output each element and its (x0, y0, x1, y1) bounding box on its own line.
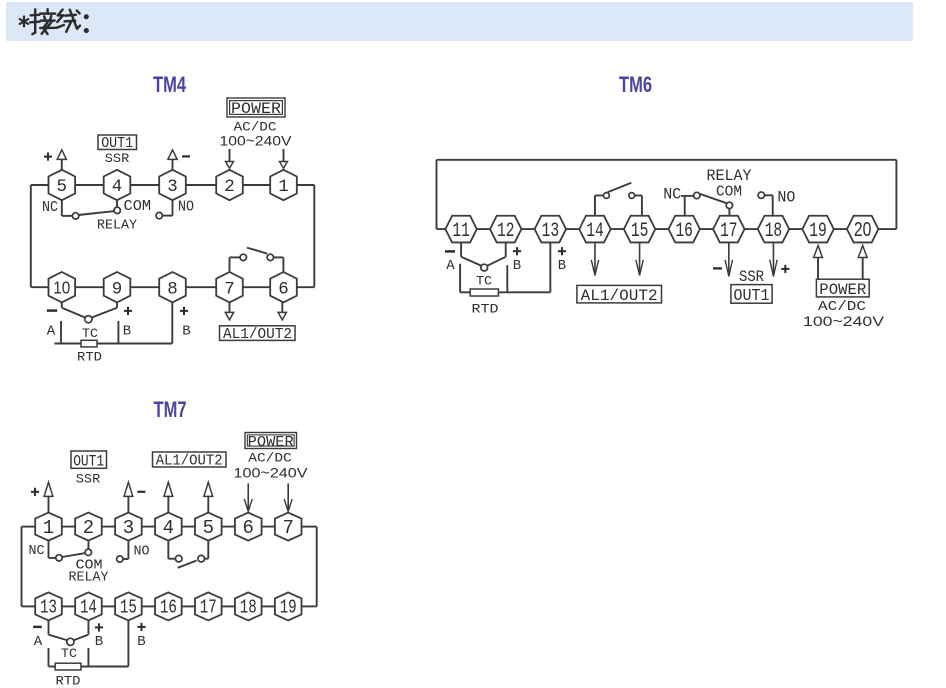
svg-text:100~240V: 100~240V (234, 464, 309, 480)
svg-text:B: B (182, 324, 190, 340)
svg-text:OUT1: OUT1 (101, 135, 133, 152)
svg-text:RTD: RTD (77, 349, 102, 364)
svg-text:TM6: TM6 (619, 72, 652, 97)
svg-text:AL1/OUT2: AL1/OUT2 (156, 453, 223, 469)
svg-text:AC/DC: AC/DC (234, 120, 277, 135)
svg-text:B: B (137, 634, 145, 650)
svg-text:1: 1 (278, 177, 289, 197)
svg-text:COM: COM (124, 199, 152, 215)
svg-text:14: 14 (586, 220, 604, 243)
svg-text:19: 19 (809, 220, 827, 243)
svg-text:20: 20 (854, 219, 872, 241)
svg-text:B: B (513, 258, 521, 274)
svg-text:NO: NO (178, 198, 194, 215)
svg-text:OUT1: OUT1 (73, 452, 104, 470)
svg-text:18: 18 (765, 220, 783, 243)
svg-text:A: A (34, 634, 43, 650)
svg-text:2: 2 (224, 177, 235, 197)
svg-text:16: 16 (675, 220, 693, 243)
svg-text:RTD: RTD (56, 674, 81, 688)
svg-text:NC: NC (29, 543, 45, 559)
svg-text:NO: NO (777, 188, 795, 206)
svg-text:12: 12 (497, 220, 515, 243)
svg-text:5: 5 (203, 517, 214, 539)
svg-text:SSR: SSR (76, 472, 101, 487)
svg-text:B: B (123, 324, 131, 340)
svg-text:4: 4 (112, 177, 123, 197)
svg-text:100~240V: 100~240V (803, 313, 885, 329)
svg-text:RELAY: RELAY (97, 217, 138, 233)
svg-text:TC: TC (476, 273, 492, 288)
svg-text:17: 17 (720, 220, 738, 243)
svg-text:TC: TC (61, 646, 77, 661)
svg-text:A: A (47, 324, 56, 340)
svg-text:15: 15 (631, 220, 649, 243)
svg-text:7: 7 (282, 517, 293, 539)
svg-text:4: 4 (163, 517, 174, 539)
svg-text:17: 17 (200, 597, 217, 619)
svg-text:SSR: SSR (105, 151, 130, 166)
svg-text:13: 13 (542, 220, 560, 243)
svg-text:A: A (446, 258, 455, 274)
svg-text:AL1/OUT2: AL1/OUT2 (581, 287, 658, 305)
svg-text:6: 6 (278, 279, 289, 299)
svg-text:13: 13 (40, 597, 57, 619)
svg-text:B: B (558, 258, 566, 274)
svg-text:SSR: SSR (739, 268, 764, 286)
svg-text:18: 18 (240, 597, 257, 619)
svg-text:COM: COM (716, 183, 742, 200)
svg-text:8: 8 (167, 279, 178, 299)
svg-text:100~240V: 100~240V (220, 133, 292, 148)
svg-text:7: 7 (224, 279, 235, 299)
svg-text:POWER: POWER (231, 100, 281, 118)
svg-text:AC/DC: AC/DC (248, 450, 292, 465)
svg-text:1: 1 (43, 517, 54, 539)
svg-text:POWER: POWER (248, 434, 294, 451)
svg-text:9: 9 (112, 279, 123, 299)
svg-text:3: 3 (123, 517, 134, 539)
svg-text:11: 11 (452, 220, 470, 243)
svg-text:RELAY: RELAY (69, 569, 110, 585)
svg-text:TM7: TM7 (154, 397, 187, 422)
svg-text:15: 15 (120, 597, 137, 619)
svg-text:3: 3 (167, 177, 178, 197)
svg-text:NC: NC (663, 185, 681, 203)
svg-text:2: 2 (83, 517, 94, 539)
svg-text:10: 10 (53, 277, 70, 297)
svg-text:14: 14 (80, 597, 97, 619)
svg-text:5: 5 (57, 177, 68, 197)
svg-text:NO: NO (134, 543, 150, 559)
svg-text:NC: NC (42, 199, 58, 216)
svg-text:16: 16 (160, 597, 177, 619)
svg-text:AL1/OUT2: AL1/OUT2 (223, 326, 292, 343)
svg-text:RTD: RTD (472, 302, 499, 317)
svg-text:OUT1: OUT1 (734, 286, 770, 305)
svg-text:TC: TC (82, 326, 98, 341)
svg-text:6: 6 (243, 517, 254, 539)
svg-text:POWER: POWER (819, 281, 866, 299)
svg-text:B: B (95, 634, 103, 650)
svg-text:19: 19 (280, 597, 297, 619)
svg-text:TM4: TM4 (153, 72, 187, 97)
